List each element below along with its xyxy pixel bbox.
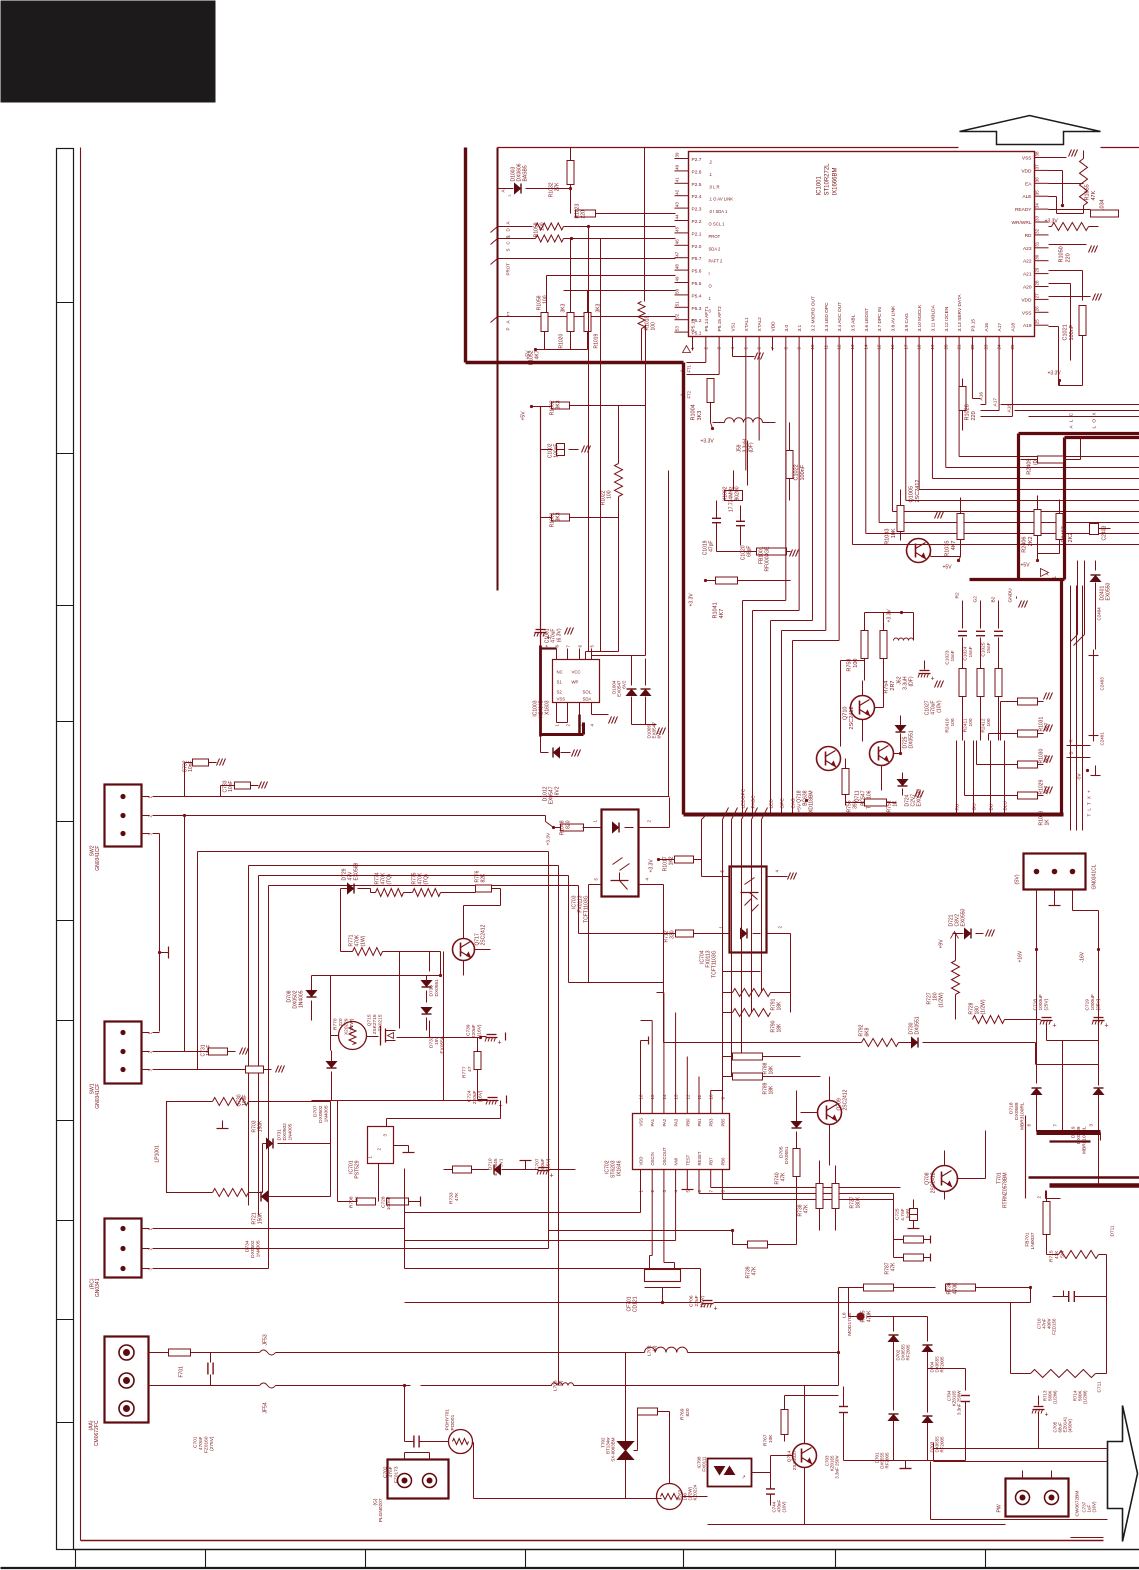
fuse F701 <box>169 1349 191 1356</box>
svg-text:(DF): (DF) <box>909 676 915 686</box>
svg-text:R1019: R1019 <box>594 334 600 349</box>
capacitor C724 (16V) <box>488 1097 498 1099</box>
wire ac top <box>149 1352 169 1354</box>
svg-text:3.4 AGC OUT: 3.4 AGC OUT <box>837 302 843 332</box>
svg-text:READY: READY <box>1015 207 1032 213</box>
svg-text:RTRNZ0578BM: RTRNZ0578BM <box>1003 1173 1009 1208</box>
capacitor C710 47nF 400V FZD156 <box>1068 1291 1070 1302</box>
svg-text:2K2: 2K2 <box>1028 537 1034 547</box>
wire sda scl drops <box>588 227 590 652</box>
svg-text:C2401: C2401 <box>1100 732 1105 746</box>
transistor Q709 2SC2412 <box>818 1101 842 1125</box>
svg-text:NMI: NMI <box>674 1158 679 1166</box>
resistor R1002 3K3 <box>552 402 570 409</box>
red frame left <box>80 148 82 1541</box>
resistor R751 1K <box>865 799 887 806</box>
svg-text:A20: A20 <box>1023 285 1032 291</box>
svg-text:JF53: JF53 <box>263 1334 269 1345</box>
svg-text:46: 46 <box>675 239 680 245</box>
resistor R737 180K <box>832 1184 839 1209</box>
wire t-bar <box>641 1040 649 1042</box>
resistor R1018 100 <box>644 148 646 302</box>
ground r2 <box>1089 246 1092 253</box>
wire d2401 down <box>1095 601 1097 650</box>
svg-text:BASB5: BASB5 <box>523 165 529 181</box>
svg-text:RU: RU <box>955 803 961 810</box>
svg-text:MBR3100RL: MBR3100RL <box>1020 1102 1026 1130</box>
svg-text:-16V: -16V <box>1080 951 1086 962</box>
wire d70x join <box>893 1361 895 1411</box>
svg-text:18K: 18K <box>769 1085 775 1095</box>
wire ic701 left <box>337 1101 339 1202</box>
resistor R1032 27K <box>567 161 574 185</box>
ground right top <box>1069 150 1072 157</box>
svg-text:C711: C711 <box>1097 1381 1103 1392</box>
svg-text:100nF: 100nF <box>800 464 806 480</box>
svg-text:3.3 LED OPC: 3.3 LED OPC <box>824 302 830 332</box>
svg-text:OSCIN: OSCIN <box>650 1152 655 1165</box>
svg-text:C739: C739 <box>466 1024 472 1036</box>
resistor R1050 220 <box>1052 223 1089 231</box>
svg-text:15nF: 15nF <box>968 646 974 657</box>
svg-text:10K: 10K <box>891 528 897 538</box>
svg-text:(1/2W): (1/2W) <box>349 1018 355 1033</box>
capacitor C1033 pads <box>1091 210 1119 217</box>
svg-text:R2410: R2410 <box>945 718 951 732</box>
wire mid horizontals <box>549 1230 733 1232</box>
svg-text:P5.15 AFT2: P5.15 AFT2 <box>717 306 723 332</box>
wire tuner box thick <box>682 363 685 815</box>
wire scl zigzag <box>536 235 564 242</box>
svg-text:10: 10 <box>810 344 815 350</box>
resistor R1052 4K7 <box>541 313 548 332</box>
wire thick eeprom bottom <box>541 733 584 736</box>
wire cascade to bottom labels <box>785 351 787 601</box>
svg-text:X1603: X1603 <box>545 700 551 715</box>
ground gndu <box>1019 601 1022 608</box>
svg-text:(16V): (16V) <box>477 1024 483 1036</box>
svg-text:5W: 5W <box>1060 1250 1066 1258</box>
svg-text:Q714: Q714 <box>787 1450 793 1462</box>
svg-text:1K: 1K <box>1045 819 1051 826</box>
wire sec right <box>1100 1133 1102 1141</box>
capacitor C1019 47pF <box>712 517 721 519</box>
wire sw1 wires <box>153 1032 160 1034</box>
wire rgb out right <box>1067 745 1091 747</box>
svg-text:21: 21 <box>957 344 962 350</box>
diode D725 DX0551 <box>896 726 906 732</box>
svg-text:23: 23 <box>983 344 988 350</box>
svg-text:A22: A22 <box>1023 259 1032 265</box>
ground pin4 <box>731 351 733 357</box>
svg-text:C706: C706 <box>689 1295 695 1307</box>
svg-text:LED: LED <box>769 799 775 809</box>
svg-text:3.10 M3CLK: 3.10 M3CLK <box>917 304 923 331</box>
svg-text:VCC: VCC <box>572 670 581 675</box>
svg-text:20: 20 <box>943 344 948 350</box>
svg-text:A17: A17 <box>997 323 1003 332</box>
svg-text:C2404: C2404 <box>1097 607 1102 621</box>
svg-text:PB5: PB5 <box>720 1118 725 1127</box>
svg-text:(1W): (1W) <box>361 935 367 946</box>
svg-text:EX0550: EX0550 <box>961 908 967 926</box>
svg-text:P5.5: P5.5 <box>692 281 702 287</box>
resistor R767 10K <box>781 1410 788 1435</box>
svg-text:P5.13: P5.13 <box>691 319 697 332</box>
capacitor C1002 100nF <box>557 444 565 456</box>
red frame bottom <box>81 1540 1104 1542</box>
capacitors C1023 C1024 C1025 15nF <box>962 601 964 629</box>
capacitor C1021 100nF <box>1079 306 1086 336</box>
svg-text:S2: S2 <box>557 690 563 695</box>
svg-text:GNDU: GNDU <box>1008 588 1014 603</box>
svg-text:(25V): (25V) <box>1044 998 1050 1010</box>
svg-text:+9V: +9V <box>939 939 945 949</box>
svg-text:Q1005: Q1005 <box>909 486 915 503</box>
resistor R1041 4K7 <box>716 577 738 584</box>
resistor R1048 820 h <box>561 824 584 831</box>
svg-text:100: 100 <box>543 295 549 304</box>
svg-text:47K: 47K <box>454 1192 460 1201</box>
svg-text:C1021: C1021 <box>1063 324 1069 340</box>
resistor R1017 1K2 <box>675 856 694 863</box>
svg-text:+5V: +5V <box>943 565 953 571</box>
svg-text:XTAL1: XTAL1 <box>744 317 750 332</box>
svg-text:VSS: VSS <box>1022 310 1032 316</box>
svg-text:D733: D733 <box>429 985 435 997</box>
svg-text:FZ0173: FZ0173 <box>394 1466 400 1483</box>
svg-text:100nF: 100nF <box>554 444 560 458</box>
svg-text:+: + <box>498 1040 502 1047</box>
svg-text:100: 100 <box>853 659 859 668</box>
diode D731 DX0502 1N4005 <box>267 1139 273 1149</box>
svg-text:25: 25 <box>1035 319 1040 325</box>
op-amp U IC1001 box ST10R272L <box>689 152 1035 337</box>
resistor R1020 3K3 <box>567 313 574 332</box>
svg-text:BLU: BLU <box>1003 801 1009 811</box>
svg-text:390: 390 <box>853 800 859 809</box>
svg-text:6V2: 6V2 <box>622 680 627 689</box>
resistor R736 470K <box>946 1284 976 1291</box>
svg-text:(1/2W): (1/2W) <box>1053 1390 1058 1404</box>
svg-text:470K: 470K <box>953 1282 959 1294</box>
wire psu right rails <box>934 1448 1108 1450</box>
svg-text:VDD: VDD <box>639 1157 644 1166</box>
svg-text:47: 47 <box>467 1066 473 1072</box>
svg-text:VSS: VSS <box>1022 156 1032 162</box>
svg-text:R733: R733 <box>449 1192 455 1204</box>
svg-text:4K7: 4K7 <box>719 609 725 619</box>
wire eeprom main vertical <box>540 407 542 646</box>
svg-text:100: 100 <box>540 222 546 231</box>
svg-text:+: + <box>1105 1023 1109 1030</box>
svg-text:T L T X +: T L T X + <box>1087 789 1092 816</box>
svg-text:3.6 LEDST: 3.6 LEDST <box>864 308 870 332</box>
resistor R771 470K (1W) <box>353 948 383 956</box>
svg-text:C707: C707 <box>535 1158 541 1170</box>
svg-text:Q715: Q715 <box>367 1014 373 1026</box>
resistor R2407 2K2 <box>1056 514 1063 540</box>
wire pw stubs <box>1022 1471 1024 1479</box>
svg-text:220: 220 <box>581 210 587 219</box>
svg-text:A16: A16 <box>979 392 985 401</box>
svg-text:RF2005: RF2005 <box>940 1436 945 1453</box>
svg-text:(SV): (SV) <box>1015 874 1021 884</box>
resonator CF701 CD121 <box>645 1270 681 1282</box>
wire cf701 bottom <box>405 1302 663 1304</box>
svg-text:DX0551: DX0551 <box>784 1146 790 1164</box>
svg-text:GN0341CL: GN0341CL <box>1092 864 1098 889</box>
resistor R715 47K 5W <box>1059 1251 1099 1259</box>
svg-text:PA3: PA3 <box>674 1118 679 1126</box>
svg-text:GU: GU <box>972 803 978 811</box>
resistor R787 47K a <box>904 1236 924 1243</box>
capacitor C2401 C2403 bracket <box>1093 650 1095 742</box>
svg-text:PB6: PB6 <box>720 1157 725 1166</box>
svg-text:3.1: 3.1 <box>797 324 803 331</box>
svg-text:D710: D710 <box>488 1158 494 1170</box>
svg-text:RF2005: RF2005 <box>940 1356 945 1373</box>
svg-text:R777: R777 <box>462 1066 468 1078</box>
svg-text:LP1001: LP1001 <box>155 1145 161 1162</box>
svg-text:VSS: VSS <box>639 1118 644 1127</box>
posistor POHY701 POD01 <box>449 1430 473 1454</box>
svg-text:(450V): (450V) <box>1068 1418 1073 1432</box>
diode D708 DX0502 1N4005 <box>307 991 317 997</box>
svg-text:32: 32 <box>1035 228 1040 234</box>
svg-text:(1/2W): (1/2W) <box>1083 1390 1088 1404</box>
svg-text:TX0215: TX0215 <box>378 1014 384 1031</box>
svg-text:POHY701: POHY701 <box>445 1409 451 1431</box>
varistor R763 (0) (1/2W) KZ0224 <box>657 1484 683 1510</box>
wire reg mesh <box>331 1035 339 1037</box>
resistors R1031 R1030 R1029 R1028 row <box>1001 701 1018 703</box>
ground mesh <box>222 1121 224 1129</box>
svg-text:24: 24 <box>997 344 1002 350</box>
svg-text:220: 220 <box>971 411 977 420</box>
svg-text:D711: D711 <box>1110 1225 1116 1236</box>
svg-text:3.9 CAG: 3.9 CAG <box>904 313 910 332</box>
wire r1017 up <box>701 820 703 877</box>
svg-text:+: + <box>714 1306 718 1313</box>
resistor R735 470K <box>864 1284 894 1291</box>
svg-text:C2403: C2403 <box>1102 526 1108 541</box>
resistor R754 2R7 <box>880 631 887 659</box>
wire sv drops <box>1036 890 1038 1084</box>
svg-text:+: + <box>1045 1412 1049 1419</box>
svg-text:+5V: +5V <box>526 350 532 360</box>
svg-text:R1055: R1055 <box>1085 184 1091 200</box>
svg-text:1K: 1K <box>893 800 899 807</box>
svg-text:47K: 47K <box>1054 1250 1060 1259</box>
connector SW1 GN0341CF <box>105 1022 142 1084</box>
svg-text:RESET: RESET <box>697 1151 702 1165</box>
svg-text:X20229: X20229 <box>344 1018 350 1035</box>
svg-text:IX1666BM: IX1666BM <box>833 167 839 195</box>
triac T702 BT134W SX-0003BM <box>625 1353 627 1442</box>
svg-text:3.7 DPC IN: 3.7 DPC IN <box>877 307 883 332</box>
ground c1001 <box>565 628 568 635</box>
svg-text:DX0502: DX0502 <box>282 1123 288 1141</box>
diode D701 DX0555 RF2005 <box>889 1415 899 1421</box>
svg-text:DX0589: DX0589 <box>1014 1102 1020 1120</box>
wire thick bus top <box>1019 432 1139 435</box>
svg-text:R708: R708 <box>349 1196 355 1208</box>
svg-text:R754: R754 <box>884 681 890 694</box>
svg-text:GN0341: GN0341 <box>95 1278 101 1297</box>
svg-text:R715: R715 <box>1049 1250 1055 1262</box>
svg-text:CM0672FC: CM0672FC <box>94 1420 100 1446</box>
svg-text:(1/2W): (1/2W) <box>981 999 987 1014</box>
capacitor C744 470nF (16V) <box>766 1488 775 1490</box>
arrow top-right <box>960 116 1101 145</box>
svg-text:I: I <box>709 271 710 276</box>
capacitor C719 1000uF (25V) <box>1094 1017 1104 1019</box>
transistor Q717 2SC2412 <box>453 939 475 961</box>
svg-text:P5.3: P5.3 <box>692 306 702 312</box>
svg-text:(16V): (16V) <box>1092 1501 1097 1513</box>
svg-text:6V2: 6V2 <box>555 786 561 795</box>
svg-text:RD: RD <box>1025 233 1032 239</box>
svg-text:C1022: C1022 <box>794 464 800 480</box>
svg-text:38: 38 <box>1035 151 1040 157</box>
transistor Q718 BC638 <box>817 747 841 771</box>
wire bottom right rails <box>931 1519 1108 1521</box>
wire ic702 bottom pins <box>640 1183 642 1213</box>
svg-text:1N4005: 1N4005 <box>256 1240 262 1257</box>
svg-text:R2407: R2407 <box>1062 526 1068 542</box>
svg-text:16: 16 <box>890 344 895 350</box>
wire ac bottom <box>149 1385 260 1387</box>
arrow bottom-right <box>1108 1406 1138 1542</box>
diode D705 DX0551 <box>792 1122 802 1128</box>
svg-text:1N4005: 1N4005 <box>299 990 305 1008</box>
svg-text:37: 37 <box>1035 164 1040 170</box>
svg-text:3K3: 3K3 <box>697 411 703 421</box>
svg-text:LN0037: LN0037 <box>1030 1232 1036 1249</box>
inductor J62 3.3uH <box>894 638 914 641</box>
wire sw2 bus <box>153 796 670 798</box>
svg-text:C728: C728 <box>381 1196 387 1208</box>
diode D721 C8V2 EX0550 <box>965 929 971 939</box>
bottom title strip <box>74 1549 1139 1551</box>
svg-text:GN0341CF: GN0341CF <box>95 846 101 871</box>
wire vdd26-28 <box>1049 283 1071 285</box>
resistor R1001 3K3 <box>552 514 570 521</box>
svg-text:18K: 18K <box>769 1065 775 1075</box>
svg-text:PB1: PB1 <box>697 1118 702 1127</box>
svg-text:PA1: PA1 <box>650 1118 655 1126</box>
svg-text:11: 11 <box>823 344 828 349</box>
ground ic1003 <box>609 717 612 724</box>
svg-text:R1035: R1035 <box>945 541 951 557</box>
svg-text:820: 820 <box>566 820 572 829</box>
ground d724 <box>915 791 918 798</box>
resistor R738 47K <box>816 1184 823 1209</box>
diode D2401 EX0550 <box>1091 576 1101 582</box>
svg-text:3.8 AV LINK: 3.8 AV LINK <box>890 305 896 332</box>
resistor R1004 3K3 <box>707 379 714 403</box>
svg-text:+3.3V: +3.3V <box>701 439 715 445</box>
wire power mesh 2 <box>312 1100 493 1102</box>
svg-text:P2.1: P2.1 <box>692 231 702 237</box>
diode D719 DX0589 MBR3100RL <box>1094 1089 1104 1095</box>
diode D702 DX0555 RF2005 <box>889 1336 899 1342</box>
svg-text:26: 26 <box>1035 306 1040 312</box>
wire pin3 aft2 <box>718 351 720 375</box>
wire y1287 right <box>1030 1288 1032 1303</box>
capacitor C701 470nF FZ0160 (275V) <box>207 1363 209 1375</box>
svg-text:.0 I SDA 1: .0 I SDA 1 <box>709 209 729 214</box>
resistor R787 47K b <box>904 1254 924 1261</box>
wire opto drops <box>588 885 590 983</box>
svg-text:D707: D707 <box>313 1105 319 1117</box>
wire d710 gnd <box>525 1161 527 1170</box>
svg-text:42: 42 <box>675 189 680 195</box>
resistor R792 6K8 <box>862 1039 899 1047</box>
svg-text:GN0341CF: GN0341CF <box>95 1084 101 1109</box>
svg-text:L O X: L O X <box>1092 411 1098 428</box>
svg-text:C701: C701 <box>193 1436 199 1448</box>
capacitor C706 22uF (16V) <box>703 1300 713 1302</box>
ferrite FB701 LN0037 <box>1043 1202 1050 1235</box>
svg-text:45: 45 <box>675 226 680 232</box>
resistor R1026 220 <box>959 387 966 411</box>
svg-text:+: + <box>550 1173 554 1180</box>
svg-text:47K: 47K <box>804 1204 810 1214</box>
ground r3 <box>1093 294 1096 301</box>
wire d708 top <box>312 975 441 977</box>
svg-text:47K: 47K <box>752 1266 758 1276</box>
svg-text:FT1: FT1 <box>687 364 692 372</box>
svg-text:470nF: 470nF <box>198 1436 204 1450</box>
svg-text:39: 39 <box>675 152 680 158</box>
svg-text:VDD: VDD <box>1021 297 1032 303</box>
op-amp U IC702 ST6203 IX1646 <box>633 1114 730 1170</box>
svg-text:O SCL 1: O SCL 1 <box>709 222 726 227</box>
op-amp U IC703 FX0113 TCFT1103G <box>602 810 639 897</box>
svg-text:WP: WP <box>572 680 579 685</box>
svg-text:220: 220 <box>338 1018 344 1026</box>
svg-text:+3.3V: +3.3V <box>689 593 695 607</box>
svg-text:A21: A21 <box>1023 272 1032 278</box>
diode D710 EX0545 5V1 <box>495 1165 501 1175</box>
svg-text:R2: R2 <box>955 592 961 598</box>
svg-text:3.13 SERV DATA: 3.13 SERV DATA <box>957 294 963 332</box>
capacitor C1027 470uF <box>920 670 930 672</box>
capacitor C1022 100nF <box>786 451 793 479</box>
resistor R703 150K <box>213 1098 249 1106</box>
IC1001 left pins <box>675 158 689 160</box>
svg-text:FT: FT <box>506 311 511 316</box>
svg-text:R770: R770 <box>333 1018 339 1030</box>
svg-text:29: 29 <box>1035 267 1040 273</box>
connector SW2 GN0341CF <box>105 785 142 847</box>
wire vdd right <box>1049 170 1063 172</box>
svg-text:VDD: VDD <box>1021 168 1032 174</box>
capacitor C1001 470uF (6.3V) <box>536 629 546 631</box>
diode D718 DX0589 MBR3100RL <box>1032 1089 1042 1095</box>
svg-text:19: 19 <box>930 344 935 350</box>
svg-text:PROT: PROT <box>709 234 721 239</box>
svg-text:+16V: +16V <box>1018 950 1024 962</box>
wire tuner drops <box>722 820 724 1091</box>
resistor R775 470K (TQ) <box>413 889 441 897</box>
svg-text:VDD: VDD <box>770 321 776 332</box>
svg-text:53: 53 <box>675 326 680 332</box>
resistor R727 180 (1/2W) <box>952 961 960 995</box>
svg-text:IC1001: IC1001 <box>817 175 823 195</box>
